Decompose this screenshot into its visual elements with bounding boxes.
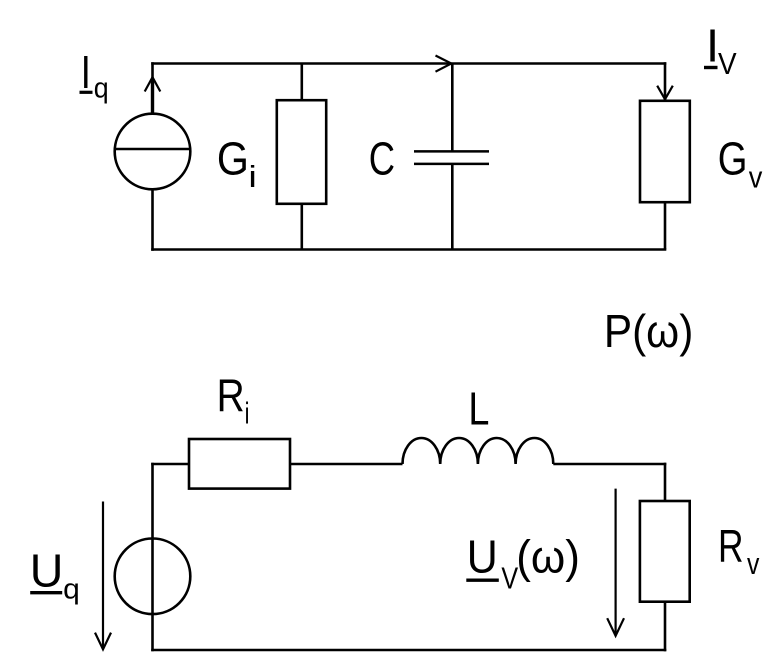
underline of Iq — [80, 91, 93, 94]
svg-text:U: U — [30, 544, 64, 596]
wire from source to Ri — [151, 463, 190, 466]
current source Iq bar — [115, 148, 190, 150]
voltage source Uq circle — [115, 539, 191, 615]
wire current source bottom lead — [151, 189, 154, 251]
resistor Rv rectangle — [640, 501, 690, 602]
wire current source top lead — [151, 62, 154, 114]
wire capacitor bottom lead — [451, 164, 454, 250]
inductor L coil — [403, 438, 554, 464]
svg-text:G: G — [217, 133, 249, 185]
svg-text:q: q — [94, 72, 109, 104]
svg-text:R: R — [718, 520, 744, 572]
conductance Gv rectangle — [640, 101, 690, 202]
svg-text:P(ω): P(ω) — [604, 306, 693, 357]
svg-text:V: V — [718, 47, 737, 82]
resistor Ri rectangle — [189, 439, 290, 489]
svg-text:G: G — [718, 133, 748, 185]
svg-text:v: v — [749, 161, 763, 195]
wire Gi top lead — [300, 64, 303, 102]
wire Gv top lead — [664, 62, 667, 101]
current arrow of source Iq (up) — [145, 77, 161, 113]
svg-text:U: U — [467, 531, 498, 583]
capacitor C top plate — [414, 150, 489, 153]
svg-text:R: R — [217, 370, 245, 422]
svg-text:I: I — [81, 46, 91, 98]
wire bottom bus (top circuit) — [151, 248, 666, 251]
wire Ri to inductor — [290, 463, 403, 466]
svg-text:C: C — [369, 132, 395, 184]
svg-text:v: v — [747, 546, 759, 580]
wire Rv top lead — [664, 463, 667, 502]
svg-text:i: i — [245, 395, 250, 430]
wire Gv bottom lead — [664, 202, 667, 249]
wire inductor to right corner — [553, 463, 666, 466]
svg-text:i: i — [248, 160, 256, 194]
wire capacitor top lead — [451, 64, 454, 152]
wire Rv bottom lead — [664, 602, 667, 652]
current source Iq circle — [115, 114, 191, 190]
capacitor C bottom plate — [414, 163, 489, 166]
current direction arrow on top bus — [436, 56, 452, 72]
conductance Gi rectangle — [277, 100, 326, 204]
voltage arrow UV (down, long) — [607, 489, 624, 636]
svg-text:L: L — [468, 383, 489, 435]
wire left vertical (bottom circuit) — [151, 463, 154, 652]
wire top bus (top circuit) — [151, 62, 666, 65]
svg-text:(ω): (ω) — [516, 531, 580, 583]
svg-text:I: I — [706, 20, 719, 72]
svg-text:q: q — [63, 573, 80, 605]
wire bottom bus (bottom circuit) — [151, 649, 666, 652]
wire Gi bottom lead — [300, 204, 303, 250]
underline of UV — [466, 579, 499, 582]
underline of IV — [704, 66, 718, 69]
voltage arrow Uq (down, long) — [95, 502, 111, 650]
underline of Uq — [30, 591, 62, 594]
current arrow IV into Gv (down) — [657, 86, 673, 100]
